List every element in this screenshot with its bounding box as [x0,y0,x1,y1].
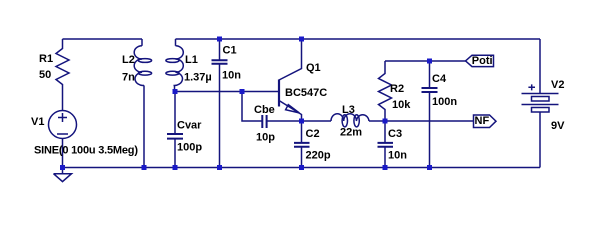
node gnd C4 [427,165,432,170]
svg-text:L1: L1 [185,54,198,66]
node poti-C4 [427,59,432,64]
ground [54,168,72,182]
node gnd C2 [299,165,304,170]
svg-text:22m: 22m [340,127,362,139]
wire top-left rail [63,38,143,40]
node gnd C3 [383,165,388,170]
svg-text:Cbe: Cbe [254,104,275,116]
resistor R1 [56,39,69,111]
node emitter [299,119,304,124]
flag NF [474,115,497,128]
svg-text:100n: 100n [432,96,457,108]
node tank L1 [173,89,178,94]
wire base node [175,91,279,93]
node Q1 collector [299,37,304,42]
capacitor C2 [294,121,310,168]
svg-text:100p: 100p [177,141,202,153]
inductor L2 [134,39,151,168]
flag Poti [466,55,494,66]
wire bottom rail [63,167,541,169]
node C3 top [383,119,388,124]
svg-text:SINE(0 100u 3.5Meg): SINE(0 100u 3.5Meg) [34,144,138,156]
node gnd L2 [142,165,147,170]
svg-text:1.37µ: 1.37µ [184,72,212,84]
resistor R2 [379,61,392,121]
capacitor Cbe [242,92,302,129]
svg-text:V2: V2 [551,79,564,91]
wire NF node [385,120,474,122]
svg-text:R2: R2 [390,83,404,95]
node base-Cbe [240,89,245,94]
svg-text:Cvar: Cvar [177,119,202,131]
svg-text:C4: C4 [432,73,447,85]
svg-text:220p: 220p [306,149,331,161]
node C1 top [217,37,222,42]
svg-text:10n: 10n [222,70,241,82]
capacitor C4 [422,61,438,168]
svg-text:NF: NF [475,115,490,127]
wire poti node [385,60,466,62]
svg-text:Poti: Poti [472,55,493,67]
svg-text:V1: V1 [31,116,44,128]
wire top-right rail [176,38,541,40]
svg-text:L3: L3 [342,104,355,116]
capacitor C3 [378,121,394,168]
svg-text:BC547C: BC547C [285,87,327,99]
transistor Q1 [279,39,302,121]
svg-text:10p: 10p [256,131,275,143]
capacitor C1 [212,39,228,168]
voltage source V1 [49,111,77,168]
capacitor Cvar [167,92,183,168]
node gnd C1 [217,165,222,170]
svg-text:Q1: Q1 [306,62,321,74]
svg-text:10n: 10n [388,149,407,161]
svg-text:50: 50 [39,69,51,81]
svg-text:L2: L2 [122,54,135,66]
node gnd Cvar [173,165,178,170]
svg-text:C1: C1 [223,44,237,56]
svg-text:R1: R1 [39,53,53,65]
svg-text:C2: C2 [306,128,320,140]
svg-text:7n: 7n [122,72,135,84]
svg-text:10k: 10k [392,99,411,111]
inductor L1 [166,39,183,92]
battery V2 [522,39,559,168]
node gnd V1 [60,165,65,170]
inductor L3 [302,114,386,127]
svg-text:C3: C3 [388,128,402,140]
svg-text:9V: 9V [551,120,565,132]
